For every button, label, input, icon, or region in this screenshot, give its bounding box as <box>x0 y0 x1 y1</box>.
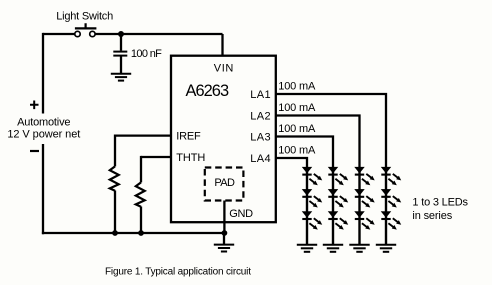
svg-text:100 mA: 100 mA <box>278 145 316 157</box>
resistor R1 (IREF set) <box>110 135 119 234</box>
wire: capacitor top lead <box>120 34 122 51</box>
svg-text:LA4: LA4 <box>250 153 270 165</box>
LED D12 <box>381 212 402 232</box>
op-amp U1: IC A6263 outline <box>171 56 276 223</box>
LED D7 <box>355 167 376 187</box>
wire: left rail lower (-) <box>42 144 44 234</box>
svg-text:in series: in series <box>412 210 452 222</box>
LED string 3 (LA2 output), 3 LEDs in series <box>349 167 376 252</box>
ground: GND pin <box>214 245 234 252</box>
svg-text:LA3: LA3 <box>250 131 270 143</box>
svg-text:LA1: LA1 <box>250 89 270 101</box>
wire: IREF pin to resistor <box>115 134 171 136</box>
LED D9 <box>355 212 376 232</box>
svg-text:Automotive: Automotive <box>17 117 70 129</box>
wire: bottom ground rail <box>42 232 225 234</box>
svg-text:Figure 1. Typical application: Figure 1. Typical application circuit <box>105 266 251 277</box>
junction: R1 to ground rail <box>112 230 118 236</box>
wire: LED string 3 vertical <box>358 167 360 245</box>
junction: R2 to ground rail <box>138 230 144 236</box>
wire: LA2 output to LED string 3 <box>276 116 360 169</box>
wire: GND node to ground symbol <box>223 233 225 245</box>
svg-text:A6263: A6263 <box>186 82 230 100</box>
wire: LED string 2 vertical <box>332 167 334 245</box>
svg-text:100 nF: 100 nF <box>131 48 162 60</box>
svg-text:GND: GND <box>229 208 253 220</box>
svg-text:12 V power net: 12 V power net <box>7 128 80 140</box>
resistor R2 (THTH) <box>136 156 145 233</box>
LED D11 <box>381 189 402 209</box>
ground: capacitor <box>111 74 131 81</box>
svg-text:LA2: LA2 <box>250 110 270 122</box>
svg-text:IREF: IREF <box>176 131 201 143</box>
capacitor C1 100 nF <box>113 52 127 56</box>
LED string 2 (LA3 output), 3 LEDs in series <box>323 167 350 252</box>
label: - terminal <box>30 150 39 152</box>
wire: LA1 output to LED string 4 <box>276 94 386 168</box>
svg-text:PAD: PAD <box>214 177 235 189</box>
wire: left rail upper (+) <box>42 33 44 114</box>
wire: capacitor bottom lead <box>120 57 122 74</box>
label: 1 to 3 LEDs in series <box>412 197 468 222</box>
svg-text:VIN: VIN <box>214 63 234 75</box>
LED string 1 (LA4 output), 3 LEDs in series <box>297 167 324 252</box>
svg-text:100 mA: 100 mA <box>278 102 316 114</box>
LED D3 <box>302 212 323 232</box>
ground: LED string 4 <box>376 245 396 252</box>
ground: LED string 1 <box>297 245 317 252</box>
junction: GND node on ground rail <box>222 230 228 236</box>
LED D1 <box>302 167 323 187</box>
LED D10 <box>381 167 402 187</box>
LED D4 <box>328 167 349 187</box>
svg-text:1 to 3 LEDs: 1 to 3 LEDs <box>412 197 468 209</box>
wire: switch to VIN corner <box>95 33 222 35</box>
wire: PAD/GND to ground rail <box>223 201 225 234</box>
junction: switch output node <box>118 31 124 37</box>
LED string 4 (LA1 output), 3 LEDs in series <box>376 167 403 252</box>
wire: LA3 output to LED string 2 <box>276 137 333 169</box>
svg-text:100 mA: 100 mA <box>278 123 316 135</box>
svg-text:Light Switch: Light Switch <box>56 10 113 22</box>
switch S1 (light switch, normally open) <box>75 23 97 36</box>
LED D8 <box>355 189 376 209</box>
ground: LED string 2 <box>323 245 343 252</box>
wire: LED string 1 vertical <box>306 167 308 245</box>
wire: LED string 4 vertical <box>385 167 387 245</box>
ground: LED string 3 <box>349 245 369 252</box>
svg-text:THTH: THTH <box>176 152 205 164</box>
LED D5 <box>328 189 349 209</box>
LED D2 <box>302 189 323 209</box>
label: Automotive 12 V power net <box>7 117 80 141</box>
wire: LA4 output to LED string 1 <box>276 158 307 168</box>
svg-text:100 mA: 100 mA <box>278 81 316 93</box>
wire: battery + rail to switch left contact <box>43 33 75 35</box>
wire: VIN pin drop <box>221 34 223 57</box>
pad: exposed thermal PAD (dashed) <box>205 168 244 201</box>
LED D6 <box>328 212 349 232</box>
label: + terminal <box>30 101 39 110</box>
wire: THTH pin to resistor <box>141 156 171 158</box>
